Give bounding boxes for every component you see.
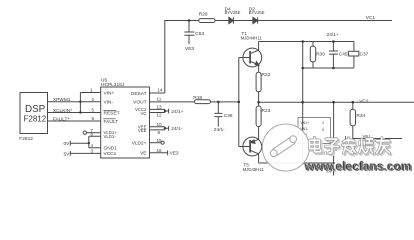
svg-text:R30: R30	[316, 52, 325, 58]
svg-text:VEE: VEE	[138, 128, 147, 133]
svg-text:11: 11	[157, 97, 162, 102]
svg-text:16: 16	[157, 148, 163, 153]
svg-text:VLD2+: VLD2+	[132, 140, 147, 146]
svg-text:24/1-: 24/1-	[171, 126, 182, 132]
svg-text:5: 5	[92, 108, 95, 113]
svg-text:XCLKIN*: XCLKIN*	[53, 108, 72, 114]
svg-text:0V: 0V	[64, 141, 71, 147]
svg-text:FAULT*: FAULT*	[53, 116, 70, 122]
svg-text:C45: C45	[339, 52, 348, 58]
svg-text:VC: VC	[141, 111, 147, 116]
svg-text:VN1+: VN1+	[301, 121, 310, 125]
svg-text:BYV26E: BYV26E	[249, 10, 265, 15]
svg-text:C53: C53	[195, 31, 204, 37]
svg-text:F2812: F2812	[24, 114, 47, 123]
svg-text:VE3: VE3	[185, 46, 194, 52]
svg-text:6: 6	[92, 116, 95, 121]
svg-text:R34: R34	[356, 113, 365, 119]
svg-text:VIN+: VIN+	[104, 90, 115, 96]
svg-text:24/1+: 24/1+	[327, 32, 339, 38]
svg-text:8: 8	[91, 132, 94, 137]
svg-text:VLD1-: VLD1-	[104, 134, 117, 139]
svg-text:4: 4	[91, 143, 94, 148]
svg-text:9: 9	[158, 130, 161, 135]
svg-text:1: 1	[90, 88, 93, 93]
svg-text:www.elecfans.com: www.elecfans.com	[303, 159, 411, 173]
svg-text:F2812: F2812	[19, 136, 33, 142]
svg-text:BYV26E: BYV26E	[225, 10, 241, 15]
svg-text:R28: R28	[199, 12, 208, 18]
svg-text:RESET: RESET	[104, 110, 120, 116]
svg-text:MJD45H11: MJD45H11	[243, 167, 265, 172]
svg-text:R23: R23	[262, 108, 271, 114]
svg-text:FAULT: FAULT	[104, 119, 119, 125]
svg-text:24/1-: 24/1-	[214, 127, 225, 133]
svg-text:C37: C37	[360, 52, 369, 58]
svg-text:15: 15	[157, 138, 163, 143]
svg-text:GND1: GND1	[104, 146, 118, 152]
svg-text:R18: R18	[193, 95, 202, 101]
svg-text:DESAT: DESAT	[131, 91, 147, 97]
svg-text:R22: R22	[262, 72, 271, 78]
svg-text:24/1+: 24/1+	[171, 109, 183, 115]
svg-text:DSP: DSP	[25, 104, 46, 115]
svg-text:HCPL316J: HCPL316J	[101, 82, 125, 88]
svg-text:13: 13	[157, 105, 163, 110]
svg-text:XPWM1: XPWM1	[53, 97, 71, 103]
svg-text:VCC1: VCC1	[104, 151, 117, 157]
svg-text:5: 5	[322, 128, 324, 132]
svg-text:C38: C38	[224, 113, 233, 119]
svg-text:VE: VE	[140, 151, 146, 157]
svg-text:VOUT: VOUT	[133, 99, 146, 105]
svg-text:3: 3	[322, 121, 324, 125]
svg-text:VE3: VE3	[170, 151, 179, 157]
svg-text:VC2: VC2	[359, 99, 369, 105]
svg-text:14: 14	[157, 88, 163, 93]
svg-text:3: 3	[91, 149, 94, 154]
svg-text:VIN-: VIN-	[104, 100, 114, 106]
svg-text:10: 10	[157, 122, 163, 127]
svg-text:2: 2	[92, 97, 95, 102]
svg-text:MJD44H11: MJD44H11	[241, 36, 263, 41]
svg-text:VC1: VC1	[366, 15, 376, 21]
svg-text:5V: 5V	[64, 151, 71, 157]
svg-text:12: 12	[157, 113, 163, 118]
